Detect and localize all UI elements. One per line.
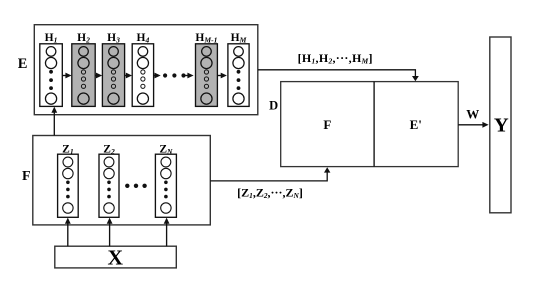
label Z2 [103, 144, 115, 156]
ellipsis dots between Z2 and ZN [125, 184, 147, 188]
svg-text:[Z1,Z2,···,ZN]: [Z1,Z2,···,ZN] [237, 186, 303, 201]
svg-text:X: X [108, 246, 124, 270]
hidden layer HM-1 [196, 44, 218, 107]
label E' cell [410, 117, 422, 132]
arrow HM-1 to HM [217, 73, 227, 79]
arrow F to H1 [51, 107, 57, 136]
box Y (output) [490, 37, 511, 213]
label D [269, 99, 278, 113]
svg-text:E': E' [410, 117, 422, 132]
svg-text:W: W [466, 106, 479, 121]
arrow H3 to H4 [125, 73, 132, 79]
arrow D to Y with weight W [458, 122, 488, 128]
svg-text:D: D [269, 99, 278, 113]
box X (input) [55, 246, 177, 268]
svg-text:E: E [18, 56, 28, 72]
label H3 [107, 32, 120, 44]
hidden layer H1 [40, 44, 63, 107]
box F (feature enclosure) [33, 136, 211, 225]
label H2 [77, 32, 90, 44]
label [Z1,Z2,...,ZN] [237, 186, 303, 201]
arrow into HM-1 [185, 73, 194, 79]
arrow X to Z1 [65, 218, 71, 247]
ellipsis dots between H4 and HM-1 [163, 73, 186, 77]
label E [18, 56, 28, 72]
label F cell [323, 117, 331, 132]
label HM-1 [195, 32, 217, 44]
arrow out of H4 [154, 73, 161, 79]
label F [22, 169, 31, 184]
hidden layer HM [228, 44, 249, 107]
box E (encoder enclosure) [34, 25, 257, 115]
svg-text:F: F [323, 117, 331, 132]
feature layer Z1 [58, 154, 79, 217]
divider between F and E' cells [373, 82, 375, 167]
svg-text:F: F [22, 169, 31, 184]
feature layer Z2 [99, 154, 119, 217]
arrow H1 to H2 [62, 73, 71, 79]
hidden layer H4 [132, 44, 153, 107]
arrow H2 to H3 [95, 73, 102, 79]
wire F output to F cell [210, 167, 330, 181]
label HM [231, 32, 247, 44]
label H4 [137, 32, 150, 44]
wire E output to E' cell [258, 70, 419, 81]
label Z1 [62, 144, 74, 156]
feature layer ZN [155, 154, 176, 217]
hidden layer H2 [72, 44, 95, 107]
label Y [494, 114, 509, 136]
arrow X to Z2 [107, 218, 113, 247]
label X [108, 246, 124, 270]
svg-text:[H1,H2,···,HM]: [H1,H2,···,HM] [298, 51, 373, 66]
label H1 [45, 32, 58, 44]
label [H1,H2,...,HM] [298, 51, 373, 66]
label ZN [159, 144, 173, 156]
box D (decoder enclosure) [281, 82, 459, 167]
arrow X to ZN [164, 218, 170, 247]
label W [466, 106, 479, 121]
hidden layer H3 [102, 44, 124, 107]
svg-text:Y: Y [494, 114, 509, 136]
